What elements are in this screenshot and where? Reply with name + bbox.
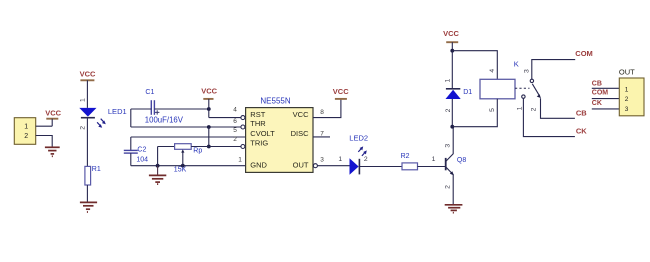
- svg-text:VCC: VCC: [443, 29, 459, 38]
- wire THR line: [131, 126, 241, 128]
- wire RST line: [209, 117, 241, 119]
- svg-text:5: 5: [489, 108, 496, 112]
- junction wiper: [181, 164, 185, 168]
- power VCC (pin8): [333, 87, 349, 99]
- resistor R2: [401, 153, 418, 170]
- svg-text:2: 2: [625, 96, 629, 103]
- wire C1 left vertical: [130, 109, 132, 127]
- svg-text:1: 1: [517, 106, 524, 110]
- wire CK: [523, 98, 575, 136]
- relay actuator dashed link: [515, 87, 530, 89]
- contact pivot circle: [530, 79, 533, 82]
- svg-text:100uF/16V: 100uF/16V: [145, 115, 184, 124]
- wire VCC to D1: [451, 51, 453, 88]
- ground (P1): [45, 147, 60, 156]
- wire LED1 to R1: [86, 118, 88, 167]
- capacitor C2: [124, 137, 148, 166]
- svg-text:Q8: Q8: [457, 157, 466, 164]
- svg-text:2: 2: [445, 185, 452, 189]
- junction THR: [207, 125, 211, 129]
- svg-text:5: 5: [233, 127, 237, 134]
- svg-text:R2: R2: [401, 153, 410, 160]
- wire OUT conn pin1: [592, 87, 620, 89]
- capacitor C1: [145, 89, 184, 125]
- svg-text:1: 1: [238, 156, 242, 163]
- pin 3 bubble: [313, 164, 317, 168]
- armature: [532, 84, 539, 96]
- svg-text:1: 1: [79, 98, 86, 102]
- power VCC (relay): [443, 29, 459, 51]
- svg-text:VCC: VCC: [333, 87, 349, 96]
- svg-text:4: 4: [489, 69, 496, 73]
- connector P1: [14, 118, 35, 145]
- svg-text:VCC: VCC: [201, 87, 217, 96]
- svg-text:1: 1: [432, 156, 436, 163]
- svg-text:OUT: OUT: [293, 160, 309, 169]
- svg-text:1: 1: [445, 79, 452, 83]
- power VCC (LED1): [80, 69, 96, 108]
- wire THR-TRIG vertical: [208, 127, 210, 147]
- svg-text:GND: GND: [250, 160, 267, 169]
- svg-text:COM: COM: [592, 90, 609, 97]
- wire R2 to Q8 base: [418, 166, 446, 168]
- junction VCC split: [450, 49, 454, 53]
- wire D1 to junction: [451, 99, 453, 127]
- svg-text:DISC: DISC: [291, 129, 310, 138]
- svg-text:3: 3: [320, 156, 324, 163]
- wire COM: [532, 60, 575, 79]
- svg-text:Rp: Rp: [193, 148, 202, 155]
- wire OUT conn pin2: [592, 98, 620, 100]
- svg-text:4: 4: [233, 106, 237, 113]
- wire R1 to ground: [86, 185, 88, 202]
- ic U1 NE555N: [233, 97, 324, 173]
- svg-text:1: 1: [625, 86, 629, 93]
- svg-text:TRIG: TRIG: [250, 138, 268, 147]
- wire CVOLT line: [131, 136, 246, 138]
- svg-text:1: 1: [24, 123, 28, 130]
- svg-text:R1: R1: [92, 166, 101, 173]
- svg-text:CK: CK: [592, 100, 602, 107]
- svg-text:COM: COM: [575, 49, 593, 58]
- svg-text:LED2: LED2: [349, 134, 368, 143]
- wire coil to return: [452, 99, 497, 127]
- pin 6 bubble: [241, 125, 245, 129]
- power VCC (P1): [45, 109, 61, 127]
- svg-text:VCC: VCC: [45, 109, 61, 118]
- svg-text:6: 6: [233, 118, 237, 125]
- contact circle (pin1): [522, 95, 525, 98]
- ground (Rp): [149, 166, 166, 184]
- potentiometer Rp: [158, 144, 241, 174]
- svg-text:104: 104: [136, 157, 148, 164]
- LED LED1: [79, 98, 126, 130]
- wire C1 top line: [131, 108, 209, 110]
- svg-text:LED1: LED1: [108, 107, 127, 116]
- resistor R1: [85, 166, 101, 185]
- svg-text:CK: CK: [576, 126, 587, 135]
- wire P1 pin2 to ground: [36, 136, 53, 147]
- wire OUT conn pin3: [592, 108, 620, 110]
- svg-text:3: 3: [625, 106, 629, 113]
- junction TRIG: [207, 145, 211, 149]
- svg-text:VCC: VCC: [80, 69, 96, 78]
- svg-text:OUT: OUT: [619, 68, 635, 77]
- svg-text:CB: CB: [592, 81, 602, 88]
- wire VCC to coil: [452, 51, 497, 80]
- junction C1-VCC: [207, 107, 211, 111]
- svg-text:3: 3: [523, 69, 530, 73]
- svg-text:8: 8: [320, 109, 324, 116]
- ground (R1): [80, 202, 97, 212]
- svg-text:2: 2: [531, 107, 538, 111]
- svg-text:NE555N: NE555N: [260, 97, 290, 106]
- wire OUT to LED2: [317, 165, 349, 167]
- svg-text:C2: C2: [137, 146, 146, 153]
- junction D1/coil/collector: [450, 125, 454, 129]
- LED LED2: [338, 134, 368, 175]
- svg-text:2: 2: [79, 126, 86, 130]
- svg-text:15K: 15K: [174, 167, 187, 174]
- wire CB: [541, 98, 575, 118]
- svg-text:CB: CB: [576, 109, 587, 118]
- pin 4 bubble: [241, 116, 245, 120]
- svg-text:THR: THR: [250, 119, 266, 128]
- pin 2 bubble: [241, 145, 245, 149]
- svg-text:D1: D1: [463, 89, 472, 96]
- svg-text:2: 2: [364, 156, 368, 163]
- svg-text:2: 2: [233, 136, 237, 143]
- wire P1 pin1 to VCC: [36, 125, 53, 127]
- power VCC (555): [201, 87, 217, 118]
- svg-text:K: K: [514, 60, 519, 69]
- svg-text:C1: C1: [145, 89, 154, 96]
- wire pin8 to VCC: [313, 99, 341, 118]
- relay K coil: [480, 60, 519, 99]
- svg-text:1: 1: [338, 156, 342, 163]
- svg-text:2: 2: [24, 133, 28, 140]
- svg-text:CVOLT: CVOLT: [250, 129, 275, 138]
- ground (Q8): [445, 205, 463, 213]
- svg-text:RST: RST: [250, 110, 265, 119]
- diode D1: [445, 79, 473, 113]
- connector OUT: [619, 68, 644, 116]
- transistor Q8: [432, 127, 467, 205]
- svg-text:VCC: VCC: [293, 110, 309, 119]
- wire DISC stub: [313, 136, 330, 138]
- wire LED2 to R2: [359, 166, 402, 168]
- junction ground tap: [156, 164, 160, 168]
- wire GND row: [131, 165, 246, 167]
- svg-text:3: 3: [444, 144, 451, 148]
- svg-text:2: 2: [445, 108, 452, 112]
